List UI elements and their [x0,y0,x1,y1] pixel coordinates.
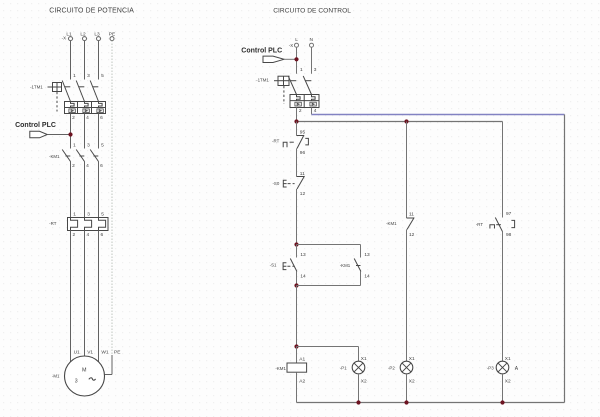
svg-text:X2: X2 [409,378,415,384]
svg-text:V1: V1 [87,349,93,355]
svg-text:2: 2 [299,108,302,114]
svg-text:3: 3 [87,73,90,79]
svg-text:N: N [310,37,314,43]
svg-text:Control PLC: Control PLC [15,122,56,129]
svg-text:1: 1 [73,73,76,79]
svg-text:-KM1: -KM1 [386,221,397,226]
svg-text:-KM1: -KM1 [340,263,351,268]
svg-text:11: 11 [409,211,414,217]
svg-text:L: L [295,37,298,43]
svg-text:-X: -X [62,35,66,40]
svg-text:-P3: -P3 [487,366,494,371]
svg-text:A2: A2 [299,379,305,385]
svg-text:X2: X2 [505,378,511,384]
svg-text:Control PLC: Control PLC [241,47,282,54]
svg-text:-S1: -S1 [270,263,277,268]
svg-text:U1: U1 [74,349,80,355]
svg-text:M: M [82,368,87,374]
svg-text:6: 6 [100,115,103,121]
svg-text:A1: A1 [299,356,305,362]
svg-text:2: 2 [72,115,75,121]
svg-text:6: 6 [101,232,104,238]
svg-text:6: 6 [100,163,103,169]
svg-text:3: 3 [87,142,90,148]
svg-text:-RT: -RT [272,138,280,143]
svg-text:W1: W1 [101,349,109,355]
svg-text:12: 12 [300,191,306,197]
svg-text:-RT: -RT [49,221,57,226]
svg-text:96: 96 [300,150,306,156]
svg-text:X1: X1 [361,356,367,362]
svg-text:PE: PE [114,349,120,355]
svg-text:-S0: -S0 [272,181,279,186]
svg-text:3: 3 [314,67,317,73]
svg-text:-RT: -RT [476,222,484,227]
svg-text:95: 95 [300,130,306,136]
svg-text:98: 98 [506,232,512,238]
svg-text:4: 4 [314,108,317,114]
svg-text:14: 14 [300,274,306,280]
svg-text:-1TM1: -1TM1 [256,77,269,82]
svg-text:1: 1 [73,211,76,217]
svg-text:2: 2 [72,163,75,169]
svg-text:4: 4 [86,163,89,169]
svg-text:5: 5 [101,73,104,79]
svg-text:-KM1: -KM1 [275,366,286,371]
svg-text:13: 13 [300,252,306,258]
svg-text:-KM1: -KM1 [49,154,60,159]
svg-text:-P1: -P1 [340,366,347,371]
svg-text:3: 3 [75,378,78,384]
svg-text:-X: -X [289,43,293,48]
svg-text:X2: X2 [361,378,367,384]
svg-text:-M1: -M1 [52,373,60,378]
svg-text:1: 1 [300,67,303,73]
svg-text:4: 4 [87,232,90,238]
svg-text:97: 97 [506,211,512,217]
svg-text:CIRCUITO DE CONTROL: CIRCUITO DE CONTROL [273,8,351,15]
svg-text:13: 13 [364,252,370,258]
svg-text:-P2: -P2 [388,366,395,371]
svg-text:14: 14 [364,274,370,280]
svg-text:-1TM1: -1TM1 [30,84,43,89]
svg-text:4: 4 [86,115,89,121]
svg-text:1: 1 [73,142,76,148]
svg-text:2: 2 [73,232,76,238]
svg-text:X1: X1 [505,356,511,362]
svg-text:5: 5 [101,142,104,148]
svg-text:5: 5 [101,211,104,217]
svg-text:CIRCUITO DE POTENCIA: CIRCUITO DE POTENCIA [49,8,134,15]
svg-text:X1: X1 [409,356,415,362]
svg-text:3: 3 [87,211,90,217]
svg-text:12: 12 [409,232,415,238]
